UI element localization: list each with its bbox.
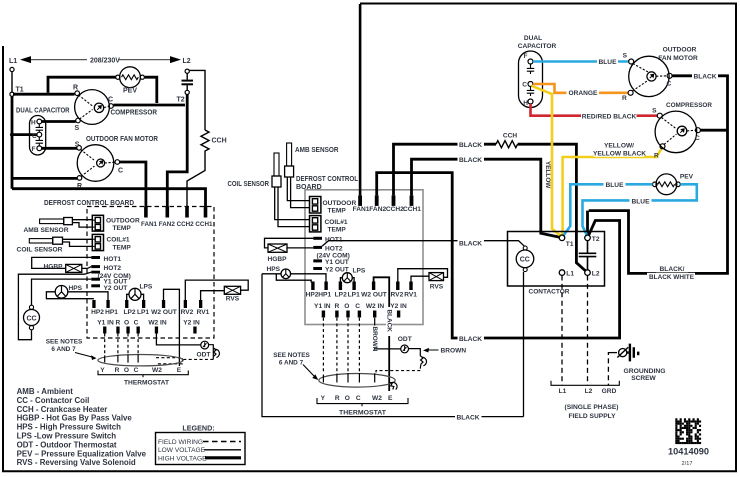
svg-text:Y1 OUT: Y1 OUT [325, 259, 349, 266]
svg-text:THERMOSTAT: THERMOSTAT [339, 409, 387, 416]
svg-text:LOW VOLTAGE: LOW VOLTAGE [158, 447, 206, 454]
svg-text:ODT - Outdoor Thermostat: ODT - Outdoor Thermostat [17, 440, 117, 449]
svg-text:HGBP: HGBP [268, 256, 288, 263]
svg-text:THERMOSTAT: THERMOSTAT [124, 380, 170, 387]
svg-text:C: C [667, 81, 672, 88]
svg-text:TEMP: TEMP [328, 227, 347, 234]
svg-text:HOT1: HOT1 [104, 256, 122, 263]
svg-text:COIL SENSOR: COIL SENSOR [228, 181, 270, 188]
svg-text:S: S [652, 108, 657, 115]
svg-text:DUAL CAPACITOR: DUAL CAPACITOR [16, 108, 70, 115]
svg-text:W2 IN: W2 IN [366, 303, 385, 310]
svg-text:HPS - High Pressure Switch: HPS - High Pressure Switch [17, 423, 122, 432]
svg-text:L1: L1 [9, 58, 17, 65]
svg-text:HPS: HPS [267, 266, 281, 273]
svg-text:Y: Y [100, 367, 105, 374]
svg-text:BLUE: BLUE [606, 182, 625, 189]
svg-text:CC - Contactor Coil: CC - Contactor Coil [17, 396, 90, 405]
svg-text:BLUE: BLUE [632, 198, 651, 205]
svg-text:F: F [32, 146, 36, 153]
svg-text:YELLOW: YELLOW [544, 161, 551, 189]
svg-text:LPS -Low Pressure Switch: LPS -Low Pressure Switch [17, 432, 117, 441]
svg-text:R: R [116, 319, 121, 326]
svg-text:RVS: RVS [226, 296, 240, 303]
svg-text:BLACK: BLACK [459, 336, 482, 343]
svg-text:O: O [344, 303, 349, 310]
svg-text:PEV: PEV [123, 88, 137, 95]
svg-text:E: E [388, 395, 393, 402]
svg-text:W2: W2 [372, 395, 382, 402]
svg-text:SEE NOTES: SEE NOTES [46, 339, 83, 346]
svg-text:LP1: LP1 [137, 309, 149, 316]
svg-text:COMPRESSOR: COMPRESSOR [666, 102, 712, 109]
svg-text:COIL#1: COIL#1 [107, 237, 130, 244]
svg-text:LPS: LPS [140, 283, 153, 290]
svg-text:6 AND 7: 6 AND 7 [279, 359, 304, 366]
svg-text:CAPACITOR: CAPACITOR [518, 43, 557, 50]
svg-text:HP1: HP1 [105, 309, 118, 316]
svg-text:HPS: HPS [69, 285, 83, 292]
svg-text:R: R [73, 85, 78, 92]
svg-text:C: C [522, 81, 527, 88]
svg-text:O: O [345, 395, 350, 402]
svg-text:PEV: PEV [680, 173, 694, 180]
svg-text:YELLOW BLACK: YELLOW BLACK [593, 151, 646, 158]
svg-text:RV2: RV2 [391, 292, 404, 299]
svg-text:LEGEND:: LEGEND: [182, 424, 214, 433]
svg-text:BOARD: BOARD [296, 184, 322, 191]
svg-text:FAN2: FAN2 [369, 206, 386, 213]
svg-text:HOT2: HOT2 [104, 265, 122, 272]
svg-text:BLACK: BLACK [693, 74, 716, 81]
svg-text:FIELD SUPPLY: FIELD SUPPLY [569, 413, 617, 420]
svg-text:S: S [75, 142, 80, 149]
svg-text:YELLOW/: YELLOW/ [604, 143, 634, 150]
svg-text:OUTDOOR: OUTDOOR [323, 200, 357, 207]
svg-text:OUTDOOR: OUTDOOR [663, 47, 697, 54]
svg-text:C: C [32, 133, 37, 140]
svg-text:CONTACTOR: CONTACTOR [529, 289, 570, 296]
svg-text:CC: CC [520, 256, 530, 263]
svg-text:C: C [355, 303, 360, 310]
svg-text:CC: CC [26, 315, 36, 322]
svg-text:C: C [118, 168, 123, 175]
svg-text:F: F [524, 53, 528, 60]
svg-text:TEMP: TEMP [328, 208, 347, 215]
svg-text:T2: T2 [592, 236, 600, 243]
svg-text:FAN1 FAN2 CCH2 CCH1: FAN1 FAN2 CCH2 CCH1 [141, 221, 213, 228]
svg-text:HIGH VOLTAGE: HIGH VOLTAGE [158, 455, 207, 462]
svg-text:HP2: HP2 [91, 309, 104, 316]
svg-text:LP1: LP1 [348, 292, 360, 299]
svg-text:R: R [335, 395, 340, 402]
svg-text:AMB - Ambient: AMB - Ambient [17, 387, 74, 396]
svg-text:BROWN: BROWN [441, 348, 467, 355]
svg-text:HOT2: HOT2 [325, 246, 343, 253]
svg-text:HGBP - Hot Gas By Pass Valve: HGBP - Hot Gas By Pass Valve [17, 414, 133, 423]
svg-text:CCH - Crankcase Heater: CCH - Crankcase Heater [17, 405, 108, 414]
svg-text:BLACK WHITE: BLACK WHITE [649, 274, 695, 281]
svg-text:HP1: HP1 [318, 292, 331, 299]
svg-text:R: R [335, 303, 340, 310]
svg-text:T1: T1 [566, 241, 574, 248]
svg-text:HGBP: HGBP [44, 263, 64, 270]
svg-text:BLUE: BLUE [599, 59, 618, 66]
svg-text:HP2: HP2 [306, 292, 319, 299]
svg-text:FAN1: FAN1 [353, 206, 370, 213]
svg-text:LP2: LP2 [335, 292, 347, 299]
svg-text:ODT: ODT [197, 352, 211, 359]
svg-text:L2: L2 [183, 58, 191, 65]
svg-text:RVS - Reversing Valve Solenoid: RVS - Reversing Valve Solenoid [17, 458, 136, 467]
svg-text:R: R [622, 95, 627, 102]
svg-text:FIELD WIRING: FIELD WIRING [158, 439, 203, 446]
svg-text:COIL#1: COIL#1 [325, 219, 348, 226]
svg-text:GRD: GRD [602, 388, 617, 395]
svg-text:AMB SENSOR: AMB SENSOR [295, 147, 339, 154]
svg-text:S: S [623, 53, 628, 60]
svg-text:BLACK: BLACK [385, 310, 392, 333]
svg-text:OUTDOOR: OUTDOOR [106, 217, 140, 224]
svg-text:CCH: CCH [212, 138, 227, 145]
svg-text:(SINGLE PHASE): (SINGLE PHASE) [565, 404, 619, 411]
svg-text:Y: Y [321, 395, 326, 402]
svg-text:OUTDOOR FAN MOTOR: OUTDOOR FAN MOTOR [86, 136, 158, 143]
svg-text:PEV – Pressure Equalization Va: PEV – Pressure Equalization Valve [17, 449, 147, 458]
svg-text:W2: W2 [152, 367, 162, 374]
svg-text:C: C [695, 135, 700, 142]
svg-text:R: R [654, 153, 659, 160]
svg-text:CCH2: CCH2 [386, 206, 404, 213]
svg-text:ORANGE: ORANGE [569, 90, 599, 97]
svg-text:10414090: 10414090 [668, 447, 709, 457]
svg-text:RV1: RV1 [404, 292, 417, 299]
svg-text:RED/RED BLACK: RED/RED BLACK [582, 114, 637, 121]
svg-text:R: R [115, 367, 120, 374]
svg-text:H: H [523, 100, 528, 107]
svg-text:C: C [134, 367, 139, 374]
svg-text:L2: L2 [592, 271, 600, 278]
svg-text:BLACK: BLACK [459, 157, 482, 164]
svg-text:C: C [356, 395, 361, 402]
svg-text:Y1 IN: Y1 IN [97, 319, 114, 326]
svg-text:RVS: RVS [430, 284, 444, 291]
svg-text:BLACK/: BLACK/ [660, 266, 685, 273]
svg-text:2/17: 2/17 [682, 461, 693, 467]
svg-text:BLACK: BLACK [456, 414, 479, 421]
svg-text:W2 OUT: W2 OUT [151, 309, 177, 316]
svg-text:C: C [108, 97, 113, 104]
svg-text:CCH: CCH [503, 133, 518, 140]
svg-text:BROWN: BROWN [371, 327, 378, 352]
svg-text:AMB SENSOR: AMB SENSOR [24, 227, 69, 234]
svg-text:T1: T1 [16, 87, 24, 94]
svg-text:TEMP: TEMP [113, 225, 132, 232]
svg-text:208/230V: 208/230V [90, 58, 120, 65]
svg-text:H: H [31, 119, 36, 126]
svg-text:SCREW: SCREW [631, 375, 656, 382]
svg-text:LPS: LPS [353, 267, 366, 274]
svg-text:ODT: ODT [398, 336, 412, 343]
svg-text:W2 IN: W2 IN [148, 319, 167, 326]
svg-text:6 AND 7: 6 AND 7 [51, 346, 76, 353]
svg-text:LP2: LP2 [123, 309, 135, 316]
svg-text:TEMP: TEMP [113, 244, 132, 251]
svg-text:COMPRESSOR: COMPRESSOR [111, 110, 158, 117]
svg-text:O: O [124, 367, 129, 374]
svg-text:L1: L1 [559, 388, 567, 395]
svg-text:GROUNDING: GROUNDING [624, 368, 666, 375]
svg-text:COIL SENSOR: COIL SENSOR [17, 247, 63, 254]
svg-text:T2: T2 [177, 97, 185, 104]
svg-text:BLACK: BLACK [459, 240, 482, 247]
svg-text:L2: L2 [585, 388, 593, 395]
svg-text:DEFROST CONTROL: DEFROST CONTROL [296, 176, 359, 183]
svg-text:BLACK: BLACK [459, 142, 482, 149]
svg-text:Y2 IN: Y2 IN [183, 319, 200, 326]
svg-text:CCH1: CCH1 [403, 206, 421, 213]
svg-text:DUAL: DUAL [524, 35, 542, 42]
svg-text:L1: L1 [566, 271, 574, 278]
svg-text:SEE NOTES: SEE NOTES [273, 352, 310, 359]
svg-text:C: C [134, 319, 139, 326]
svg-text:O: O [124, 319, 129, 326]
svg-text:E: E [177, 367, 182, 374]
svg-text:RV2: RV2 [181, 309, 194, 316]
svg-text:Y1 IN: Y1 IN [314, 303, 331, 310]
svg-text:RV1: RV1 [197, 309, 210, 316]
svg-text:W2 OUT: W2 OUT [361, 292, 387, 299]
svg-text:FAN MOTOR: FAN MOTOR [658, 55, 698, 62]
svg-text:R: R [77, 183, 82, 190]
svg-text:S: S [75, 125, 80, 132]
